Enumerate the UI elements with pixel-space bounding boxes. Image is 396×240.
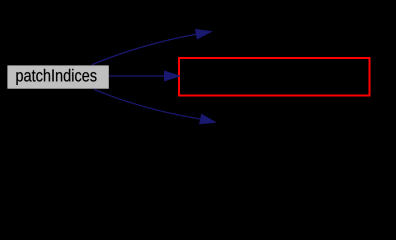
node (truncated, red border, empty)	[179, 58, 370, 96]
wire edge to red node	[109, 71, 180, 81]
wire edge to top node	[92, 29, 211, 64]
node patchIndices (current node, grey fill)	[7, 65, 108, 88]
wire edge to bottom node	[94, 89, 215, 124]
